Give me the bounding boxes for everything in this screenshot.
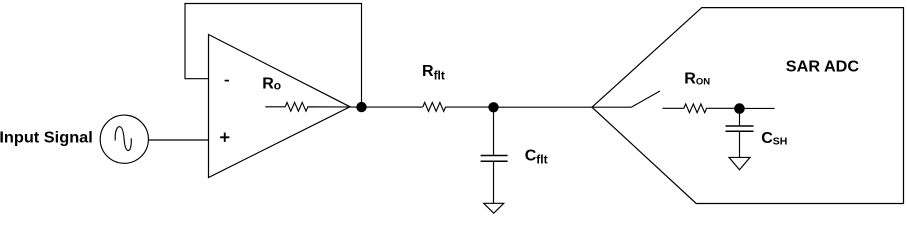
wire source to op-amp plus input [148,139,208,141]
switch S1 [631,91,660,107]
wire feedback loop [185,4,362,108]
wire output node to Rflt [362,106,423,108]
capacitor Cflt [481,107,508,203]
svg-text:Rflt: Rflt [422,63,445,83]
node output [356,102,366,112]
svg-text:RON: RON [684,71,710,88]
svg-text:Cflt: Cflt [525,147,548,166]
op-amp minus sign [225,80,229,82]
capacitor CSH [726,109,754,158]
svg-text:Ro: Ro [262,76,281,93]
ground below Cflt [484,203,504,213]
ground below CSH [729,157,750,169]
wire stub right of sample node [740,107,775,109]
svg-text:Input Signal: Input Signal [0,129,93,146]
resistor Rflt [423,103,446,112]
node filter [488,102,498,112]
op-amp U1 [209,35,351,178]
wire Rflt to filter node [446,106,494,108]
op-amp plus sign [220,133,229,142]
svg-text:CSH: CSH [761,130,787,147]
SAR ADC boundary [592,8,904,204]
resistor RON [663,104,740,113]
node sample [734,103,745,114]
wire filter node to ADC input [494,106,632,108]
svg-text:SAR ADC: SAR ADC [786,59,860,76]
resistor Ro [265,102,361,111]
source V1 [100,115,148,163]
